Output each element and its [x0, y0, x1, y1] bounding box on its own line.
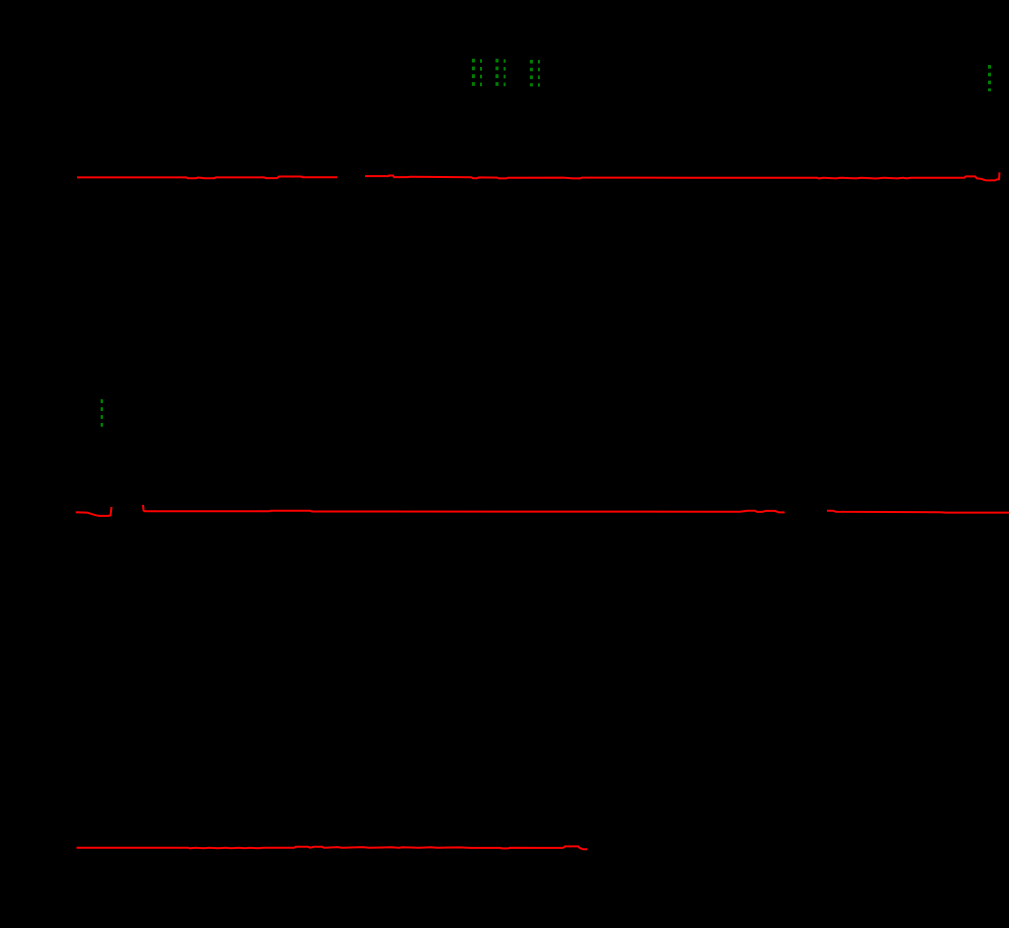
trace 1 (top) segment 2	[365, 172, 1000, 180]
pick marker pair 1 left line (x~473)	[472, 59, 475, 87]
single pick marker middle panel (x~101.8)	[101, 399, 103, 427]
trace 2 (middle) segment 2	[143, 505, 785, 513]
trace 1 (top) segment 1	[77, 177, 337, 179]
pick marker pair 2 left line (x~497)	[496, 59, 499, 87]
trace 2 (middle) segment 3	[827, 511, 1009, 513]
trace 3 (bottom)	[77, 846, 588, 849]
pick marker pair 2 right line (x~504.6)	[504, 59, 506, 86]
pick marker pair 1 right line (x~481)	[480, 59, 482, 86]
pick marker pair 3 left line (x~531.4)	[530, 60, 533, 87]
single pick marker top-right (x~989.5)	[988, 65, 991, 91]
trace 2 (middle) segment 1	[76, 507, 112, 516]
pick marker pair 3 right line (x~538.9)	[538, 60, 540, 87]
